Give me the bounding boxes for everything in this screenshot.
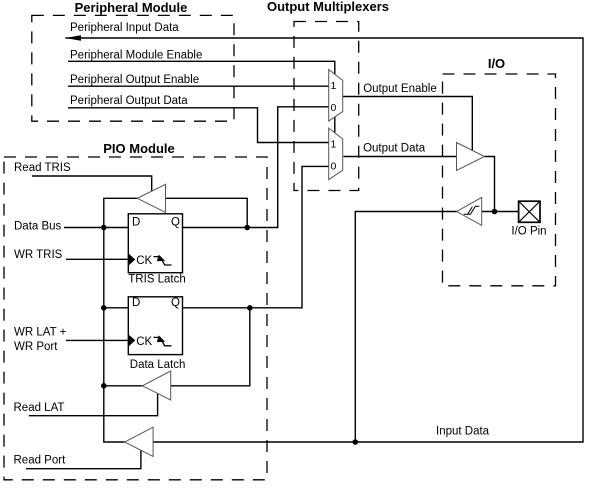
svg-text:Peripheral Input Data: Peripheral Input Data <box>70 22 179 34</box>
svg-text:TRIS Latch: TRIS Latch <box>128 274 186 286</box>
svg-text:Peripheral Output Data: Peripheral Output Data <box>70 95 188 107</box>
svg-text:1: 1 <box>331 80 337 92</box>
svg-text:WR Port: WR Port <box>14 341 58 353</box>
svg-text:Output Data: Output Data <box>363 143 426 155</box>
svg-text:Peripheral Module: Peripheral Module <box>75 0 188 15</box>
svg-text:0: 0 <box>331 102 337 114</box>
svg-text:Peripheral Module Enable: Peripheral Module Enable <box>70 50 202 62</box>
svg-text:Data Bus: Data Bus <box>14 221 62 233</box>
svg-text:I/O Pin: I/O Pin <box>511 226 546 238</box>
svg-text:Read Port: Read Port <box>14 455 67 467</box>
svg-text:1: 1 <box>331 138 337 150</box>
svg-text:I/O: I/O <box>488 56 505 71</box>
svg-text:PIO Module: PIO Module <box>103 141 175 156</box>
svg-text:Input Data: Input Data <box>436 426 490 438</box>
svg-text:Data Latch: Data Latch <box>130 359 186 371</box>
svg-text:Output Multiplexers: Output Multiplexers <box>267 0 389 14</box>
svg-text:D: D <box>132 217 140 229</box>
svg-text:0: 0 <box>331 161 337 173</box>
svg-text:Read LAT: Read LAT <box>14 402 65 414</box>
svg-text:Q: Q <box>171 297 180 309</box>
svg-text:Output Enable: Output Enable <box>363 83 437 95</box>
svg-text:D: D <box>132 297 140 309</box>
svg-text:Peripheral Output Enable: Peripheral Output Enable <box>70 74 199 86</box>
svg-text:CK: CK <box>136 255 152 267</box>
svg-text:CK: CK <box>136 336 152 348</box>
svg-text:Q: Q <box>171 217 180 229</box>
svg-text:WR LAT +: WR LAT + <box>14 327 67 339</box>
svg-text:Read TRIS: Read TRIS <box>14 162 71 174</box>
svg-text:WR TRIS: WR TRIS <box>14 249 63 261</box>
